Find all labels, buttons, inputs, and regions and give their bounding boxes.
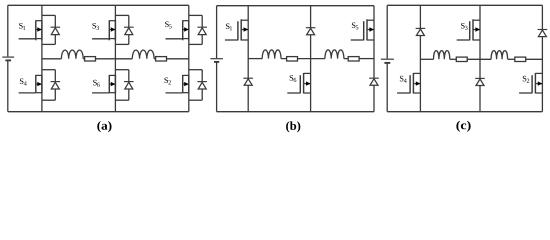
diode S6 body (a) (body diode) — [115, 70, 133, 101]
caption (a) — [97, 121, 111, 132]
wire: (c) mid rail R2 to right edge — [526, 58, 543, 60]
transistor S1 (b) — [225, 19, 248, 40]
wire — [281, 58, 287, 60]
wire: (b) left edge upper — [216, 6, 218, 58]
transistor S3 (a) — [92, 20, 115, 41]
wire: (b) top rail — [217, 5, 374, 7]
battery V (c) (DC source) — [381, 59, 394, 63]
wire: (c) leg2 lower — [479, 86, 481, 112]
wire: (a) left edge upper — [7, 5, 9, 56]
inductor L1 — [61, 50, 83, 59]
diode S3 body (a) (body diode) — [115, 15, 133, 44]
wire: (c) right edge upper — [541, 5, 543, 29]
inductor L2 (b) — [325, 50, 344, 59]
diode D2 (b) — [306, 28, 316, 35]
wire: (c) left edge upper — [386, 5, 388, 58]
wire: (a) top rail — [8, 4, 189, 6]
transistor S2 (a) — [164, 75, 188, 94]
wire: (b) leg3 upper — [373, 6, 375, 79]
diode S5 body (a) (body diode) — [189, 15, 207, 44]
diode D3 (c) — [538, 30, 548, 37]
wire: (a) leg 1 — [41, 5, 43, 111]
inductor L2 (c) — [491, 51, 508, 60]
transistor S1 (a) — [19, 20, 42, 41]
wire — [450, 58, 457, 60]
wire: (a) leg 2 — [114, 5, 116, 111]
diode S1 body (a) (body diode) — [42, 15, 60, 44]
wire: (c) mid rail to L1 — [420, 58, 433, 60]
wire — [344, 58, 348, 60]
resistor R2 (b) — [348, 57, 359, 61]
battery V (b) (DC source) — [210, 59, 223, 62]
wire: (b) leg1 upper — [247, 6, 249, 79]
wire: (a) mid rail R1 to L2 — [96, 58, 133, 60]
wire: (b) bottom rail — [217, 111, 374, 113]
wire: (c) top rail — [387, 4, 542, 6]
diode D2 (c) — [475, 78, 485, 85]
wire: (a) bottom rail — [8, 111, 189, 113]
wire: (b) left edge lower — [216, 63, 218, 112]
diode S4 body (a) (body diode) — [42, 70, 60, 101]
wire: (b) leg2 lower — [310, 35, 312, 112]
transistor S4 (c) — [397, 73, 420, 94]
wire: (b) leg2 upper — [310, 6, 312, 28]
wire: (a) leg 3 — [188, 5, 190, 111]
caption (c) — [456, 121, 470, 132]
wire — [154, 58, 156, 60]
diode D1 (c) — [416, 28, 426, 35]
wire: (b) leg1 lower — [247, 85, 249, 111]
transistor S2 (c) — [519, 73, 542, 94]
wire — [83, 58, 84, 60]
wire: (b) mid rail R2 to leg 3 — [359, 58, 374, 60]
wire: (c) right edge lower — [541, 37, 543, 112]
transistor S6 (b) — [287, 73, 310, 94]
wire: (c) mid rail R1 to L2 — [467, 58, 491, 60]
resistor R2 (c) — [515, 57, 526, 61]
wire: (b) leg3 lower — [373, 85, 375, 111]
transistor S5 (b) — [351, 19, 374, 40]
resistor R1 (b) — [287, 57, 298, 61]
resistor R2 — [156, 57, 167, 61]
transistor S6 (a) — [92, 75, 115, 94]
wire: (a) left edge lower — [7, 61, 9, 112]
wire: (c) left edge lower — [386, 64, 388, 112]
wire: (a) mid rail R2 to leg 3 — [167, 58, 189, 60]
wire: (a) mid rail to L1 — [42, 58, 62, 60]
diode D3 (b) — [369, 78, 379, 85]
inductor L2 — [132, 50, 154, 59]
wire: (c) leg2 upper — [479, 5, 481, 78]
wire — [508, 58, 515, 60]
wire: (b) mid rail R1 to L2 — [298, 58, 325, 60]
caption (b) — [286, 121, 300, 132]
inductor L1 (b) — [262, 50, 281, 59]
inductor L1 (c) — [434, 51, 450, 60]
transistor S3 (c) — [457, 19, 480, 40]
diode D1 (b) — [243, 78, 253, 85]
wire: (b) mid rail to L1 — [248, 58, 262, 60]
wire: (c) leg1 upper — [419, 5, 421, 28]
wire: (c) leg1 lower — [419, 36, 421, 112]
transistor S4 (a) — [19, 75, 42, 94]
diode S2 body (a) (body diode) — [189, 70, 207, 101]
wire: (c) bottom rail — [387, 111, 542, 113]
transistor S5 (a) — [165, 20, 189, 41]
battery V1 (DC source) — [2, 57, 14, 60]
resistor R1 — [85, 57, 96, 61]
resistor R1 (c) — [456, 57, 467, 61]
